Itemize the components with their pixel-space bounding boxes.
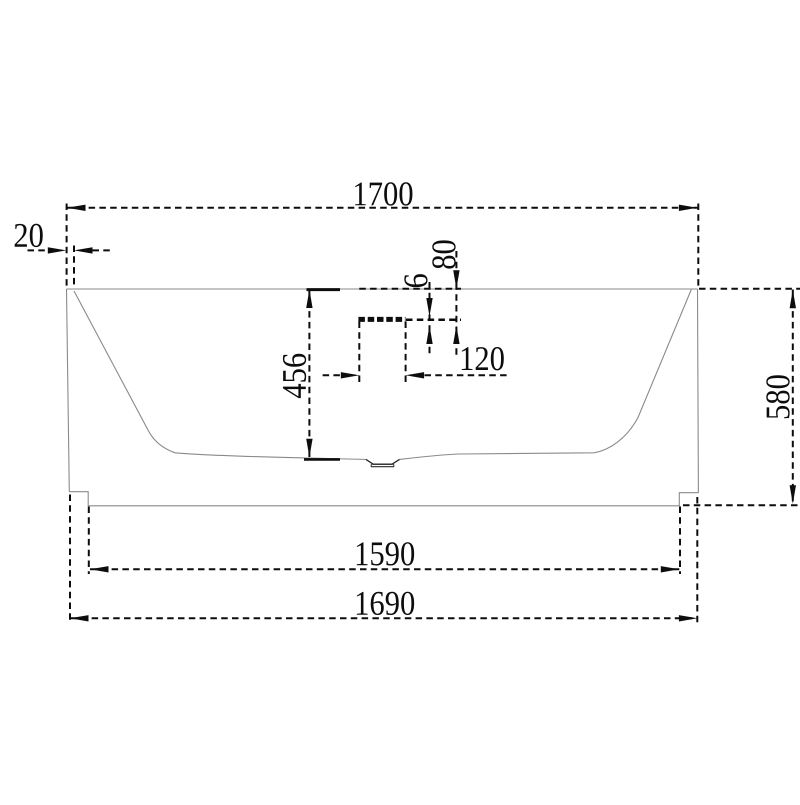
tub left outer wall <box>67 289 70 492</box>
dim 80: dimension line <box>455 251 457 356</box>
drain recess funnel <box>366 459 400 464</box>
dim 1590: right arrowhead <box>661 566 680 572</box>
dim 1690: label <box>357 592 414 615</box>
dim 120: left tail <box>323 374 341 376</box>
dim 456: label <box>283 354 306 398</box>
dim 456: dimension line <box>308 290 310 458</box>
dim 580: dimension line <box>792 290 794 505</box>
dim 1590: label <box>357 542 414 565</box>
dim 1590: right extension <box>679 507 681 575</box>
dim 1700: left arrowhead <box>67 205 86 211</box>
dim 580: label <box>766 375 789 418</box>
dim 1700: dimension line <box>67 207 697 209</box>
dim 120: right tail <box>425 374 508 376</box>
tub interior left slope and floor to drain <box>74 291 366 459</box>
thick floor segment (waste seat on floor) <box>304 458 340 461</box>
dim 120: right arrowhead (points left) <box>406 372 425 378</box>
dashed overlay on rim (slot top reference) <box>359 288 461 290</box>
dim 1590: dimension line <box>90 568 679 570</box>
slot right extension line <box>405 322 407 384</box>
dim 1700: label <box>355 182 412 205</box>
dim 580: top extension <box>699 288 800 290</box>
thick rim segment (overflow seat on rim) <box>307 288 341 291</box>
tub right outer wall <box>697 289 700 493</box>
dim 80: upper arrowhead (points down to rim) <box>453 270 459 289</box>
tub base: left foot step, bottom, right foot step <box>69 492 698 506</box>
dim 1700: right extension <box>697 204 699 288</box>
dim 6: label <box>404 274 427 287</box>
dim 1700: right arrowhead <box>679 205 698 211</box>
dim 1690: left extension <box>69 495 71 624</box>
dim 1690: dimension line <box>70 617 697 619</box>
dim 1590: left arrowhead <box>90 566 109 572</box>
dim 80: lower arrowhead (points up) <box>453 326 459 345</box>
dashed line from slot to 80 extension <box>406 318 461 321</box>
dim 580: bottom arrowhead <box>790 485 796 504</box>
dim 120: label <box>462 347 504 370</box>
dim 20: right extension <box>73 246 75 288</box>
dim 20: right arrowhead (points left) <box>74 247 93 253</box>
dim 1690: right arrowhead <box>679 615 698 621</box>
tub interior floor right of drain and right slope <box>400 290 692 460</box>
dim 20: label <box>15 224 43 247</box>
drain recess base plate <box>371 464 394 467</box>
hidden slot thick dashed line <box>358 317 405 322</box>
dim 456: top arrowhead <box>306 290 312 309</box>
dim 1690: right extension <box>696 497 698 623</box>
dim 80: label <box>432 240 455 268</box>
dim 580: top arrowhead <box>790 290 796 309</box>
dim 20: left arrowhead (points right) <box>48 247 67 253</box>
dim 20: right tail <box>93 249 112 251</box>
dim 6: lower arrowhead (points up) <box>426 326 432 345</box>
dim 6: upper arrowhead (points down) <box>426 298 432 317</box>
dim 1690: left arrowhead <box>70 615 89 621</box>
dim 580: bottom extension <box>683 504 800 506</box>
dim 1590: left extension <box>88 507 90 575</box>
slot left extension line <box>358 322 360 384</box>
dim 1700: left extension <box>66 204 68 288</box>
tub rim top edge <box>67 288 698 290</box>
dim 120: left arrowhead (points right) <box>341 372 360 378</box>
dim 6: dimension line <box>429 282 431 356</box>
dim 456: bottom arrowhead <box>306 439 312 458</box>
dim 20: left tail <box>28 249 49 251</box>
